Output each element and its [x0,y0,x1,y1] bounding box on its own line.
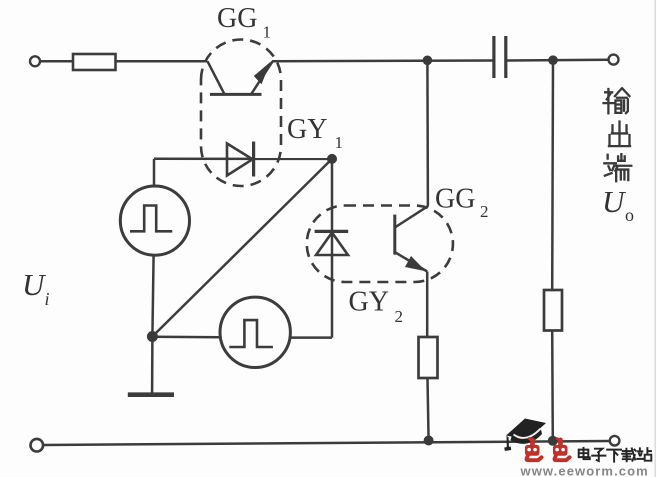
svg-text:GY: GY [287,114,327,145]
svg-text:www.eeworm.com: www.eeworm.com [520,464,649,477]
svg-text:GG: GG [435,184,475,215]
svg-text:U: U [22,267,47,302]
svg-text:GG: GG [217,3,257,34]
svg-text:U: U [602,184,627,219]
svg-text:2: 2 [395,307,404,326]
svg-text:1: 1 [335,133,344,152]
svg-text:2: 2 [480,202,489,221]
svg-text:1: 1 [263,23,272,42]
svg-text:i: i [45,289,50,309]
svg-text:GY: GY [349,287,389,318]
svg-text:o: o [625,205,634,225]
